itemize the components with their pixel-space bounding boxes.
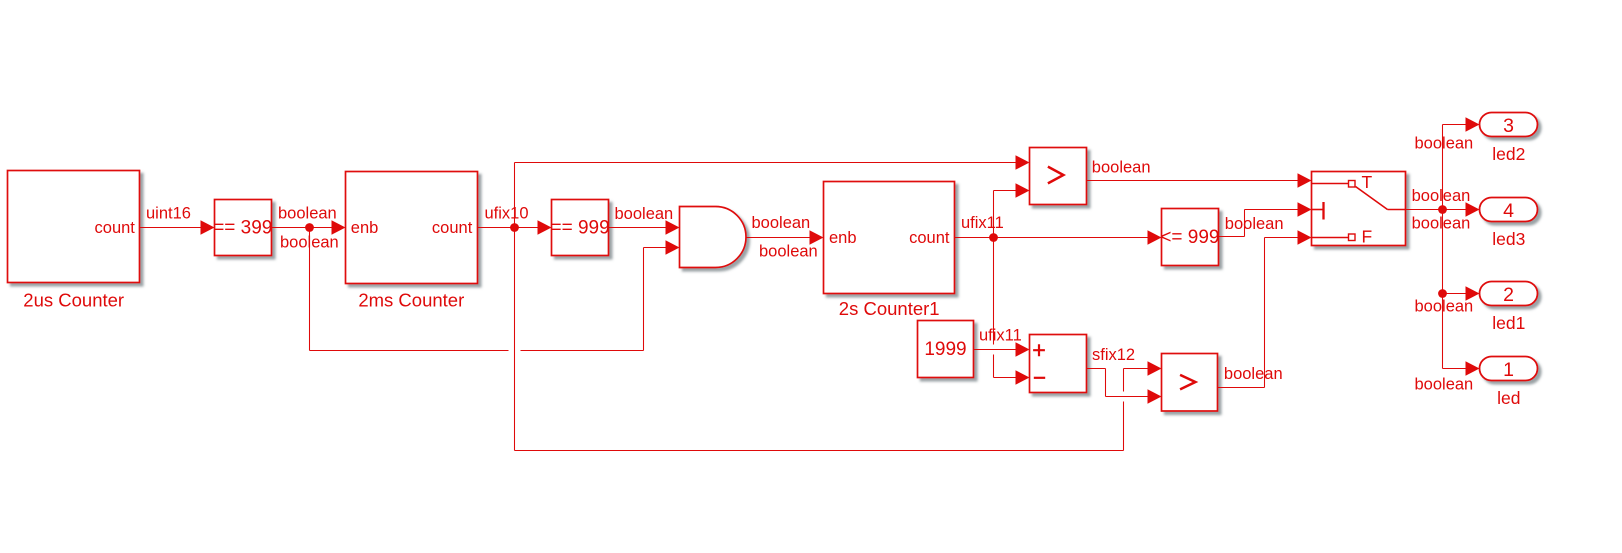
- svg-text:led: led: [1497, 388, 1520, 408]
- subsystem block 2ms Counter: [346, 172, 478, 284]
- svg-text:led2: led2: [1492, 144, 1525, 164]
- glyph > in bottom compare block: [1181, 375, 1195, 388]
- svg-text:boolean: boolean: [1415, 376, 1474, 394]
- svg-text:1: 1: [1503, 359, 1514, 381]
- arrowhead into switch T: [1298, 173, 1312, 187]
- compare block == 399: [215, 200, 272, 256]
- wire node ufix10 down feedback to bottom > input 1: [515, 228, 1149, 451]
- arrowhead into ==999: [538, 220, 552, 234]
- svg-text:<= 999: <= 999: [1160, 227, 1219, 248]
- svg-text:3: 3: [1503, 115, 1514, 137]
- junction node boolean after ==399: [305, 223, 314, 232]
- svg-text:2s Counter1: 2s Counter1: [839, 298, 940, 319]
- svg-text:T: T: [1362, 172, 1373, 192]
- wire ==399 to 2ms enb: [272, 227, 333, 229]
- sum block +-: [1030, 335, 1087, 393]
- svg-text:ufix10: ufix10: [485, 205, 529, 223]
- wire trunk up to outport 3: [1443, 125, 1467, 210]
- wire node ufix11 up to > input 2: [994, 191, 1017, 238]
- arrowhead into ==399: [201, 220, 215, 234]
- switch internals: [1312, 181, 1406, 241]
- wire branch from node ==399out down and right to AND input 2: [310, 228, 667, 351]
- outport oval 2 led1: [1480, 282, 1538, 306]
- svg-text:boolean: boolean: [278, 205, 337, 223]
- arrowhead into AND input2: [666, 240, 680, 254]
- subsystem block 2us Counter: [8, 171, 140, 283]
- compare block > (bottom): [1162, 354, 1218, 412]
- wire AND out to 2s enb: [746, 237, 810, 239]
- wire 2ms count to ==999: [478, 227, 539, 229]
- compare block <= 999: [1162, 209, 1219, 266]
- arrowhead into switch F: [1298, 230, 1312, 244]
- arrowhead into top > input1: [1016, 155, 1030, 169]
- svg-text:boolean: boolean: [752, 214, 811, 232]
- svg-text:led1: led1: [1492, 313, 1525, 333]
- svg-text:count: count: [95, 219, 136, 237]
- wire top > out to switch T input: [1087, 180, 1299, 182]
- outport oval 4 led3: [1480, 198, 1538, 222]
- wire ==999 to AND input 1: [609, 227, 667, 229]
- arrowhead into 2s enb: [810, 230, 824, 244]
- svg-text:4: 4: [1503, 200, 1514, 222]
- switch F path line: [1312, 237, 1349, 239]
- arrowhead into outport 2: [1466, 286, 1480, 300]
- svg-text:boolean: boolean: [280, 234, 339, 252]
- svg-text:F: F: [1362, 227, 1373, 247]
- svg-text:ufix11: ufix11: [961, 214, 1004, 232]
- arrowhead into outport 3: [1466, 117, 1480, 131]
- svg-text:boolean: boolean: [615, 205, 674, 223]
- svg-text:boolean: boolean: [1415, 298, 1474, 316]
- wire bottom > out to switch F input: [1218, 238, 1299, 388]
- svg-text:sfix12: sfix12: [1092, 346, 1135, 364]
- svg-text:led3: led3: [1492, 229, 1525, 249]
- svg-text:2ms Counter: 2ms Counter: [358, 289, 464, 310]
- AND gate: [680, 207, 746, 268]
- glyph + in sum block: [1034, 345, 1044, 355]
- switch control stub: [1312, 209, 1323, 211]
- arrowhead into <=999: [1148, 230, 1162, 244]
- outport oval 1 led: [1480, 357, 1538, 381]
- wire trunk down to outport 2: [1443, 210, 1467, 294]
- wire switch out to outport 4: [1406, 209, 1467, 211]
- compare block == 999: [552, 200, 609, 256]
- svg-text:2: 2: [1503, 284, 1514, 306]
- wire trunk down to outport 1: [1443, 294, 1467, 369]
- svg-text:count: count: [909, 229, 950, 247]
- compare block > (top): [1030, 148, 1087, 205]
- svg-text:== 399: == 399: [213, 218, 272, 239]
- switch T port square: [1349, 181, 1356, 188]
- arrowhead into sum plus: [1016, 342, 1030, 356]
- arrowhead into sum minus: [1016, 370, 1030, 384]
- svg-text:boolean: boolean: [1412, 187, 1471, 205]
- outport oval 3 led2: [1480, 113, 1538, 137]
- arrowhead into bottom > input2: [1148, 389, 1162, 403]
- svg-text:boolean: boolean: [759, 243, 818, 261]
- wire 2s count to <=999: [955, 237, 1149, 239]
- svg-text:boolean: boolean: [1225, 215, 1284, 233]
- svg-text:boolean: boolean: [1415, 135, 1474, 153]
- switch selector diagonal: [1356, 187, 1406, 210]
- relational operator glyphs: [1034, 167, 1195, 389]
- arrowhead into outport 4: [1466, 202, 1480, 216]
- wire sum out to bottom > input 2: [1087, 369, 1149, 397]
- wire 1999 to sum plus input: [974, 349, 1017, 351]
- switch block: [1312, 172, 1406, 246]
- svg-text:count: count: [432, 219, 473, 237]
- arrowhead into bottom > input1: [1148, 361, 1162, 375]
- svg-text:enb: enb: [829, 229, 857, 247]
- arrowhead into outport 1: [1466, 361, 1480, 375]
- svg-text:1999: 1999: [924, 339, 966, 360]
- junction node ufix10: [510, 223, 519, 232]
- wire <=999 out to switch control input: [1219, 210, 1299, 237]
- junction node ufix11: [989, 233, 998, 242]
- constant block 1999: [918, 321, 974, 378]
- glyph > in top compare block: [1049, 167, 1063, 183]
- arrowhead into 2ms enb: [332, 220, 346, 234]
- svg-text:2us Counter: 2us Counter: [23, 290, 124, 311]
- arrowhead into AND input1: [666, 220, 680, 234]
- junction node led1 branch: [1438, 289, 1447, 298]
- svg-text:uint16: uint16: [146, 205, 191, 223]
- wire node ufix10 up to > input 1: [515, 163, 1017, 228]
- svg-text:boolean: boolean: [1412, 214, 1471, 232]
- svg-text:enb: enb: [351, 219, 379, 237]
- junction node switch output: [1438, 205, 1447, 214]
- glyph - in sum block: [1035, 377, 1044, 379]
- wire 2us count to ==399: [140, 227, 202, 229]
- arrowhead into top > input2: [1016, 183, 1030, 197]
- svg-text:== 999: == 999: [551, 218, 610, 239]
- wire node ufix11 down to sum minus input: [994, 238, 1017, 378]
- switch T path line: [1312, 183, 1349, 185]
- subsystem block 2s Counter1: [824, 182, 955, 294]
- svg-text:boolean: boolean: [1224, 365, 1283, 383]
- svg-text:ufix11: ufix11: [979, 327, 1022, 345]
- switch F port square: [1349, 234, 1356, 241]
- arrowhead into switch control: [1298, 202, 1312, 216]
- switch control bar: [1322, 202, 1324, 220]
- svg-text:boolean: boolean: [1092, 158, 1151, 176]
